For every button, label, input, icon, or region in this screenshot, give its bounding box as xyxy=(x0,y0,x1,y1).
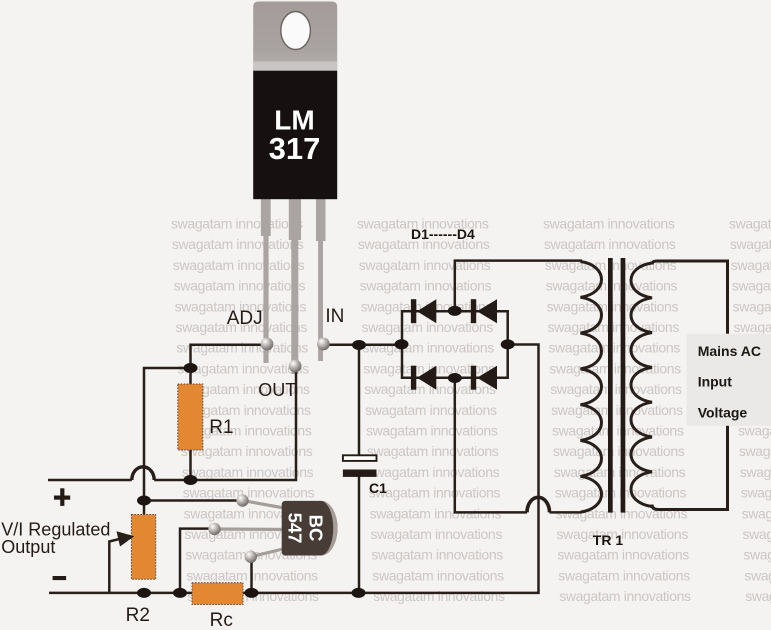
svg-text:swagatam innovationsswagatam i: swagatam innovationsswagatam innovations… xyxy=(180,423,771,439)
svg-text:Input: Input xyxy=(698,374,733,390)
svg-text:Output: Output xyxy=(1,537,55,557)
svg-text:IN: IN xyxy=(325,306,344,327)
svg-text:ADJ: ADJ xyxy=(227,308,263,329)
svg-text:Rc: Rc xyxy=(210,610,233,630)
svg-text:317: 317 xyxy=(269,131,321,166)
svg-text:swagatam innovationsswagatam i: swagatam innovationsswagatam innovations… xyxy=(185,547,771,563)
svg-text:BC: BC xyxy=(305,515,326,542)
svg-text:C1: C1 xyxy=(369,480,387,496)
svg-text:R2: R2 xyxy=(126,605,150,626)
svg-text:TR 1: TR 1 xyxy=(593,532,624,548)
svg-text:547: 547 xyxy=(285,513,306,544)
svg-text:Mains AC: Mains AC xyxy=(698,343,761,359)
svg-text:swagatam innovationsswagatam i: swagatam innovationsswagatam innovations… xyxy=(181,443,771,459)
svg-text:swagatam innovationsswagatam i: swagatam innovationsswagatam innovations… xyxy=(183,485,771,501)
svg-text:OUT: OUT xyxy=(258,380,296,400)
svg-text:swagatam innovationsswagatam i: swagatam innovationsswagatam innovations… xyxy=(179,402,771,418)
svg-text:swagatam innovationsswagatam i: swagatam innovationsswagatam innovations… xyxy=(186,567,771,583)
svg-text:R1: R1 xyxy=(209,417,233,438)
svg-text:Voltage: Voltage xyxy=(698,405,748,421)
svg-text:D1------D4: D1------D4 xyxy=(411,226,475,242)
svg-text:swagatam innovationsswagatam i: swagatam innovationsswagatam innovations… xyxy=(187,588,771,604)
svg-text:swagatam innovationsswagatam i: swagatam innovationsswagatam innovations… xyxy=(182,464,771,480)
